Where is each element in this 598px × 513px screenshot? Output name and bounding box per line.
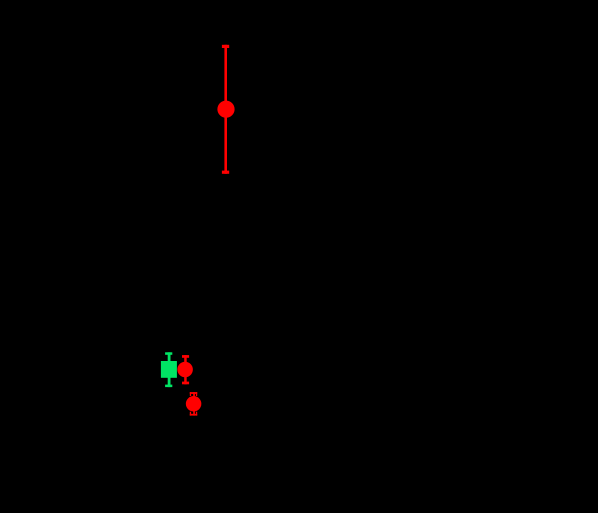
data point 2: green square with vertical error bar xyxy=(161,352,177,387)
data point 4: red circle with bracket-ended error bar xyxy=(186,392,202,416)
data point 3: red circle with vertical error bar xyxy=(177,355,193,384)
data point 1: red circle with vertical error bar xyxy=(217,45,234,174)
